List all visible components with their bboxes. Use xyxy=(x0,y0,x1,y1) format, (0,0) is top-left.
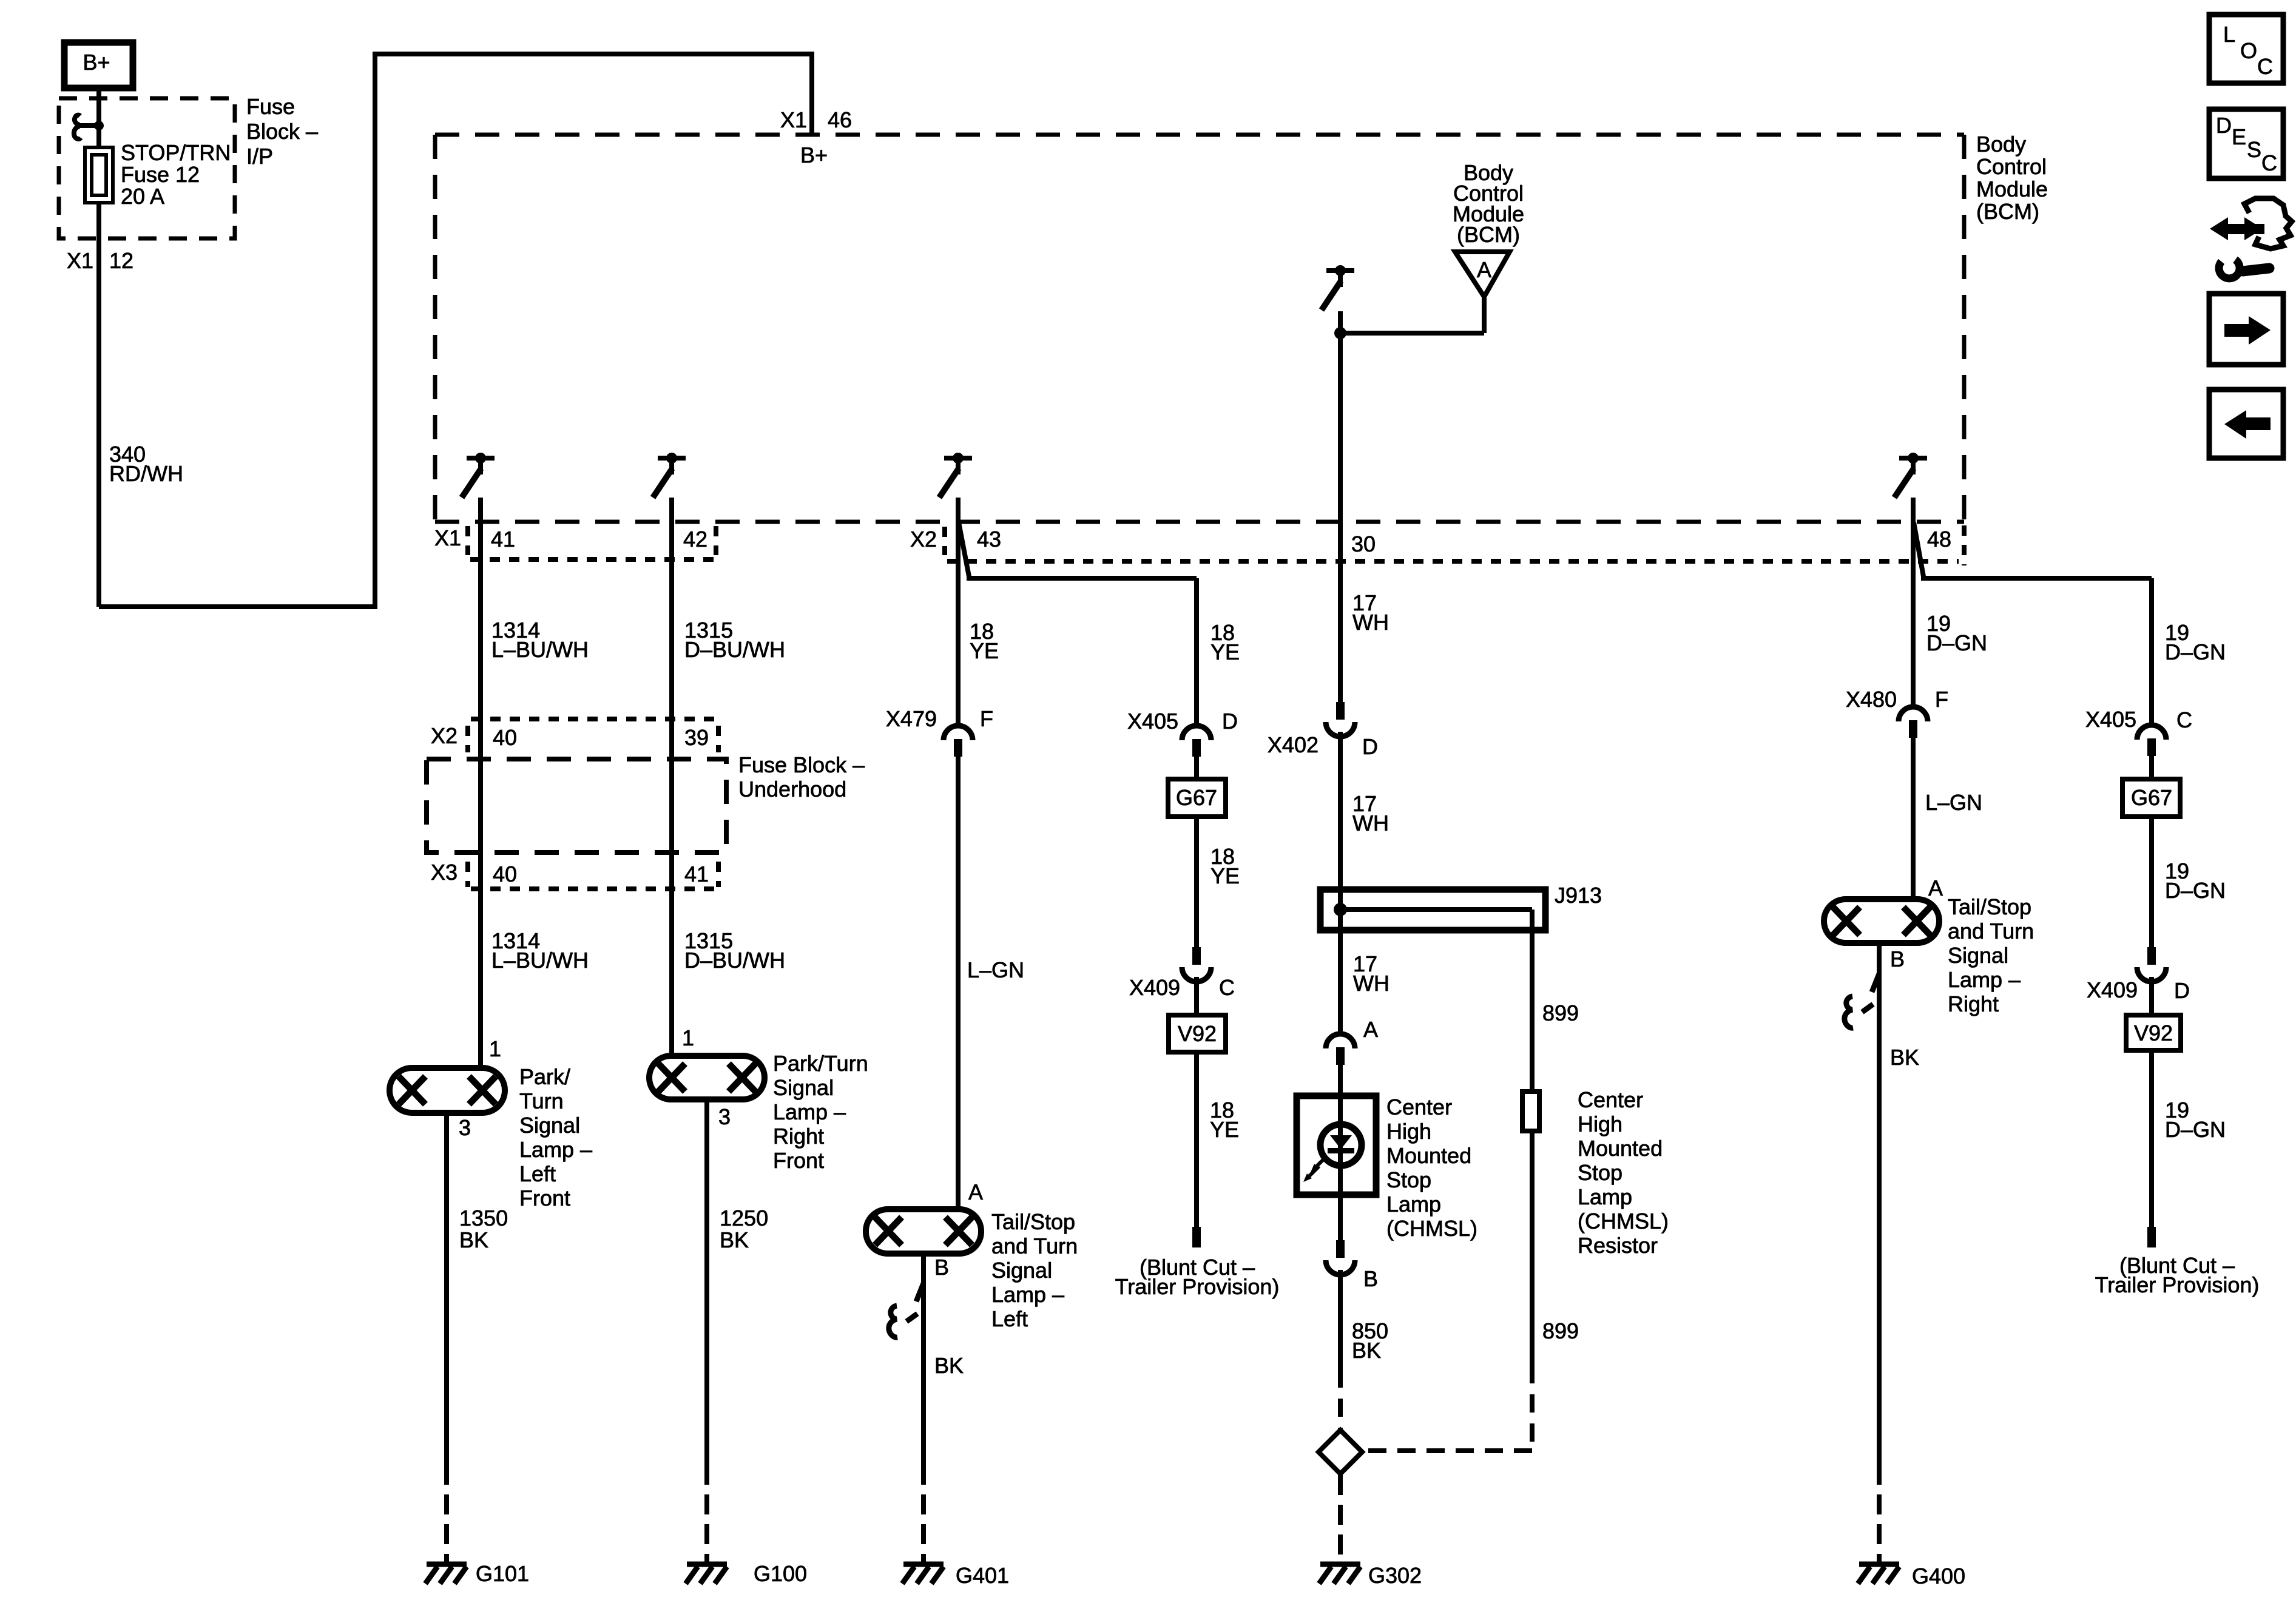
svg-text:Lamp –: Lamp – xyxy=(773,1099,846,1124)
svg-text:WH: WH xyxy=(1352,610,1389,635)
svg-text:G401: G401 xyxy=(956,1563,1009,1588)
svg-text:Center: Center xyxy=(1578,1087,1643,1112)
connector X409 C xyxy=(1129,947,1235,1000)
wire X405 to G67 xyxy=(1194,757,1199,780)
fuse block underhood dashed box xyxy=(427,759,726,852)
fuse block I/P dashed box xyxy=(59,98,235,238)
svg-text:L–BU/WH: L–BU/WH xyxy=(491,637,589,662)
svg-text:(CHMSL): (CHMSL) xyxy=(1386,1216,1477,1241)
svg-text:D–BU/WH: D–BU/WH xyxy=(684,637,785,662)
wire label 18 YE above blunt cut xyxy=(1210,1098,1239,1142)
svg-text:B+: B+ xyxy=(83,50,110,75)
blunt cut left label xyxy=(1115,1255,1280,1299)
connector X479 F xyxy=(886,706,993,757)
svg-text:L: L xyxy=(2223,22,2235,47)
tail/stop and turn signal lamp right xyxy=(1824,899,1939,943)
svg-text:Tail/Stop: Tail/Stop xyxy=(991,1209,1075,1234)
svg-text:YE: YE xyxy=(1210,863,1240,888)
svg-text:3: 3 xyxy=(459,1115,471,1140)
connector X402 D xyxy=(1268,702,1378,759)
svg-text:WH: WH xyxy=(1352,811,1389,836)
wire label 850 BK xyxy=(1352,1318,1388,1363)
CHMSL resistor xyxy=(1522,1092,1539,1131)
LOC icon box xyxy=(2209,15,2283,83)
previous page arrow icon xyxy=(2209,390,2283,458)
ground G401 xyxy=(902,1563,1009,1588)
svg-text:A: A xyxy=(1477,257,1491,282)
svg-text:12: 12 xyxy=(109,248,133,273)
svg-text:43: 43 xyxy=(977,527,1001,552)
wire label 1314 L-BU/WH lower xyxy=(491,928,589,973)
svg-text:Signal: Signal xyxy=(991,1258,1052,1283)
BCM label above triangle xyxy=(1453,160,1524,247)
svg-text:1: 1 xyxy=(682,1025,694,1050)
wire 1315 upper xyxy=(669,498,674,1056)
svg-text:X1: X1 xyxy=(780,107,807,132)
svg-text:Fuse: Fuse xyxy=(246,94,295,119)
svg-text:Right: Right xyxy=(1948,991,1999,1016)
svg-text:Signal: Signal xyxy=(773,1075,834,1100)
svg-text:X409: X409 xyxy=(2087,977,2138,1002)
svg-text:Tail/Stop: Tail/Stop xyxy=(1948,894,2031,919)
next page arrow icon xyxy=(2209,294,2283,365)
wire 1250 BK xyxy=(704,1099,709,1562)
svg-text:899: 899 xyxy=(1542,1318,1579,1343)
svg-text:C: C xyxy=(2257,54,2273,79)
svg-text:C: C xyxy=(1219,975,1235,1000)
svg-text:YE: YE xyxy=(1210,640,1240,664)
svg-text:Mounted: Mounted xyxy=(1386,1143,1471,1168)
wire CHMSL to connector B xyxy=(1338,1195,1343,1240)
wire label 1315 D-BU/WH upper xyxy=(684,618,785,662)
in-line connector symbol tail right xyxy=(1845,974,1879,1028)
svg-text:F: F xyxy=(980,706,993,731)
svg-text:Park/Turn: Park/Turn xyxy=(773,1051,868,1076)
svg-text:Trailer Provision): Trailer Provision) xyxy=(2095,1272,2260,1297)
blunt cut terminal left xyxy=(1192,1227,1201,1247)
wire label 18 YE column 3 xyxy=(970,619,999,663)
wire BK tail left xyxy=(921,1254,926,1562)
wire branch pin 48 to X405 C xyxy=(1914,522,2152,725)
svg-text:BK: BK xyxy=(1890,1045,1919,1070)
wire label 17 WH upper xyxy=(1352,590,1389,635)
wire 899 lower xyxy=(1363,1131,1532,1451)
svg-text:B+: B+ xyxy=(800,143,828,167)
wire label 17 WH lower xyxy=(1353,951,1389,996)
svg-text:Fuse 12: Fuse 12 xyxy=(121,162,200,187)
svg-text:D–GN: D–GN xyxy=(1926,630,1987,655)
svg-text:and Turn: and Turn xyxy=(1948,919,2034,944)
svg-text:30: 30 xyxy=(1351,532,1376,556)
svg-text:L–BU/WH: L–BU/WH xyxy=(491,948,589,973)
BCM driver switch pin 43 xyxy=(939,453,972,498)
wire 899 from J913 xyxy=(1530,910,1535,1092)
svg-text:F: F xyxy=(1935,687,1948,712)
ground reference V92 box right xyxy=(2126,1015,2181,1050)
wire label 18 YE branch xyxy=(1210,620,1240,664)
svg-text:3: 3 xyxy=(718,1104,731,1129)
tail/stop left label xyxy=(991,1209,1078,1331)
wire L-GN to tail lamp left xyxy=(956,757,961,1210)
BCM driver switch pin 48 xyxy=(1894,453,1927,498)
pin X1 12 labels xyxy=(67,248,133,273)
svg-text:YE: YE xyxy=(1210,1117,1239,1142)
svg-text:Fuse Block –: Fuse Block – xyxy=(738,752,865,777)
wire diamond to G302 xyxy=(1338,1475,1343,1562)
svg-text:41: 41 xyxy=(491,527,515,552)
svg-text:A: A xyxy=(968,1180,983,1204)
wire 19 D-GN pin 48 xyxy=(1911,498,1916,707)
svg-text:G101: G101 xyxy=(476,1561,529,1586)
wire branch pin 43 to X405 xyxy=(959,522,1197,726)
BCM driver switch pin 42 xyxy=(653,453,686,498)
fuse block underhood connector X3 row xyxy=(431,860,718,889)
ground reference V92 box left xyxy=(1169,1015,1226,1052)
BCM internal node triangle A xyxy=(1455,252,1510,297)
wire 17 WH pin 30 xyxy=(1338,311,1343,702)
wire BK tail right xyxy=(1877,943,1882,1562)
svg-text:D: D xyxy=(1362,734,1378,759)
wire label 19 D-GN lower right xyxy=(2165,1098,2226,1142)
svg-text:1: 1 xyxy=(489,1036,501,1061)
svg-text:C: C xyxy=(2261,150,2277,175)
svg-text:Left: Left xyxy=(519,1161,556,1186)
svg-text:G67: G67 xyxy=(1176,785,1217,810)
wire G67 to X409 right xyxy=(2149,817,2154,947)
svg-text:D–GN: D–GN xyxy=(2165,878,2226,903)
svg-text:Mounted: Mounted xyxy=(1578,1136,1663,1161)
blunt cut right label xyxy=(2095,1253,2260,1297)
svg-text:RD/WH: RD/WH xyxy=(109,461,183,486)
svg-text:(CHMSL): (CHMSL) xyxy=(1578,1209,1669,1234)
svg-text:X1: X1 xyxy=(434,525,461,550)
svg-text:Block –: Block – xyxy=(246,119,318,144)
harness repair icon xyxy=(2210,198,2292,279)
wire 18 YE pin 43 xyxy=(956,498,961,726)
svg-text:X402: X402 xyxy=(1268,732,1319,757)
svg-text:Resistor: Resistor xyxy=(1578,1233,1658,1258)
svg-text:E: E xyxy=(2232,124,2246,149)
fuse block I/P label xyxy=(246,94,318,169)
svg-text:Trailer Provision): Trailer Provision) xyxy=(1115,1274,1280,1299)
connector X480 F xyxy=(1846,687,1948,738)
splice diamond xyxy=(1319,1430,1362,1474)
wire label 19 D-GN branch xyxy=(2165,620,2226,664)
park/turn left front label xyxy=(519,1064,592,1210)
svg-text:C: C xyxy=(2176,707,2192,732)
svg-text:X2: X2 xyxy=(910,527,937,552)
wire 850 BK xyxy=(1338,1270,1343,1429)
svg-text:Lamp: Lamp xyxy=(1578,1184,1632,1209)
svg-text:Lamp –: Lamp – xyxy=(1948,967,2021,992)
fuse STOP/TRN Fuse 12 20 A xyxy=(85,147,113,203)
svg-text:Stop: Stop xyxy=(1386,1167,1431,1192)
svg-text:BK: BK xyxy=(934,1353,964,1378)
svg-text:V92: V92 xyxy=(2134,1021,2173,1045)
CHMSL lamp box with LED xyxy=(1297,1096,1376,1195)
svg-text:X1: X1 xyxy=(67,248,93,273)
wire label 18 YE below G67 xyxy=(1210,844,1240,888)
svg-text:Body: Body xyxy=(1976,132,2026,157)
svg-text:Front: Front xyxy=(773,1148,824,1173)
ground reference G67 box right xyxy=(2122,779,2180,817)
svg-text:D–BU/WH: D–BU/WH xyxy=(684,948,785,973)
bus hook connector inside fuse block xyxy=(74,115,104,139)
svg-text:1350: 1350 xyxy=(459,1206,508,1230)
wire L-GN right xyxy=(1911,738,1916,900)
svg-text:BK: BK xyxy=(720,1227,749,1252)
BCM driver switch pin 41 xyxy=(462,453,495,498)
splice pack J913 xyxy=(1320,883,1602,930)
connector B CHMSL xyxy=(1326,1240,1378,1291)
wire label 19 D-GN mid right xyxy=(2165,859,2226,903)
svg-text:X2: X2 xyxy=(431,723,458,748)
svg-text:Signal: Signal xyxy=(1948,943,2008,968)
svg-text:L–GN: L–GN xyxy=(1925,790,1982,815)
BCM label right side xyxy=(1976,132,2048,224)
connector X409 D xyxy=(2087,947,2190,1003)
wire V92 to blunt cut left xyxy=(1194,1052,1199,1227)
svg-text:B: B xyxy=(1890,947,1905,971)
svg-text:(BCM): (BCM) xyxy=(1976,199,2039,224)
tail/stop right label xyxy=(1948,894,2034,1016)
wire A to CHMSL lamp xyxy=(1338,1065,1343,1098)
battery feed B+ box xyxy=(64,42,133,88)
svg-text:X405: X405 xyxy=(1127,709,1178,734)
wire V92 to blunt cut right xyxy=(2149,1050,2154,1227)
park/turn right front label xyxy=(773,1051,868,1173)
svg-text:Stop: Stop xyxy=(1578,1160,1622,1185)
wire label 1350 BK xyxy=(459,1206,508,1252)
wire label 17 WH mid xyxy=(1352,791,1389,836)
connector X1 pin row xyxy=(434,525,720,559)
svg-text:Right: Right xyxy=(773,1124,824,1149)
svg-text:40: 40 xyxy=(493,725,517,750)
ground G100 xyxy=(686,1561,807,1586)
svg-text:Park/: Park/ xyxy=(519,1064,570,1089)
ground reference G67 box left xyxy=(1168,779,1226,817)
svg-text:A: A xyxy=(1928,876,1943,900)
wire X402 to J913 xyxy=(1338,732,1343,890)
svg-text:WH: WH xyxy=(1353,971,1389,996)
CHMSL label xyxy=(1386,1095,1477,1241)
wire 1314 upper xyxy=(478,498,483,1068)
wire G67 to X409 xyxy=(1194,817,1199,947)
fuse block underhood label xyxy=(738,752,865,802)
wire feed loop to BCM pin X1 46 xyxy=(99,52,812,609)
svg-text:Lamp: Lamp xyxy=(1386,1192,1441,1217)
svg-text:D: D xyxy=(2174,978,2190,1003)
park/turn signal lamp right front xyxy=(649,1056,765,1099)
svg-text:Turn: Turn xyxy=(519,1089,564,1113)
pin X1 46 labels xyxy=(780,107,852,167)
fuse block underhood connector X2 row xyxy=(431,719,718,752)
svg-text:STOP/TRN: STOP/TRN xyxy=(121,140,231,165)
connector X405 D xyxy=(1127,709,1238,757)
svg-text:A: A xyxy=(1363,1017,1378,1042)
svg-text:V92: V92 xyxy=(1178,1021,1217,1046)
ground G101 xyxy=(425,1561,529,1586)
svg-text:Signal: Signal xyxy=(519,1113,580,1138)
svg-text:20 A: 20 A xyxy=(121,184,164,209)
svg-text:D: D xyxy=(1222,709,1238,734)
svg-text:Center: Center xyxy=(1386,1095,1452,1119)
wire 340 RD/WH down from fuse xyxy=(96,203,101,607)
svg-text:D: D xyxy=(2216,113,2232,138)
wire label 1314 L-BU/WH upper xyxy=(491,618,589,662)
svg-text:Control: Control xyxy=(1976,154,2047,179)
wire label 1315 D-BU/WH lower xyxy=(684,928,785,973)
svg-text:X479: X479 xyxy=(886,706,937,731)
svg-text:G67: G67 xyxy=(2131,785,2172,810)
wire X405 C to G67 xyxy=(2149,756,2154,780)
svg-text:Underhood: Underhood xyxy=(738,777,846,802)
svg-text:O: O xyxy=(2240,38,2257,63)
svg-text:42: 42 xyxy=(683,527,707,552)
svg-text:48: 48 xyxy=(1927,527,1951,552)
svg-text:and Turn: and Turn xyxy=(991,1234,1078,1258)
svg-text:BK: BK xyxy=(1352,1338,1381,1363)
svg-text:X480: X480 xyxy=(1846,687,1897,712)
svg-text:B: B xyxy=(934,1255,949,1280)
svg-text:D–GN: D–GN xyxy=(2165,640,2226,664)
svg-text:YE: YE xyxy=(970,638,999,663)
ground G302 xyxy=(1319,1563,1422,1588)
park/turn signal lamp left front xyxy=(390,1068,505,1113)
wire label 1250 BK xyxy=(720,1206,768,1252)
fuse value label xyxy=(121,140,231,209)
Body Control Module dashed box xyxy=(435,135,1964,565)
svg-text:1250: 1250 xyxy=(720,1206,768,1230)
ground G400 xyxy=(1858,1564,1965,1588)
wire 1350 BK xyxy=(444,1113,449,1562)
connector X2 pin row xyxy=(910,527,1959,561)
BCM driver switch pin 30 xyxy=(1322,265,1354,310)
in-line connector symbol tail left xyxy=(889,1283,923,1337)
connector A CHMSL xyxy=(1326,1017,1378,1065)
wire triangle A to pin 30 switch xyxy=(1334,297,1484,339)
svg-text:X3: X3 xyxy=(431,860,458,885)
svg-text:Front: Front xyxy=(519,1186,570,1210)
DESC icon box xyxy=(2209,109,2283,178)
tail/stop and turn signal lamp left xyxy=(866,1209,981,1254)
blunt cut terminal right xyxy=(2147,1227,2156,1247)
wire B+ to fuse xyxy=(96,88,101,147)
svg-text:X409: X409 xyxy=(1129,975,1180,1000)
svg-text:L–GN: L–GN xyxy=(967,957,1024,982)
svg-text:X405: X405 xyxy=(2085,707,2136,732)
svg-text:40: 40 xyxy=(493,862,517,886)
svg-text:B: B xyxy=(1363,1266,1378,1291)
wire J913 through xyxy=(1338,890,1343,1033)
svg-text:39: 39 xyxy=(684,725,709,750)
wire label 340 RD/WH xyxy=(109,442,183,486)
svg-text:G400: G400 xyxy=(1912,1564,1965,1588)
CHMSL resistor label xyxy=(1578,1087,1669,1258)
svg-text:BK: BK xyxy=(459,1227,488,1252)
svg-text:S: S xyxy=(2247,137,2261,162)
svg-text:899: 899 xyxy=(1542,1001,1579,1025)
svg-text:Lamp –: Lamp – xyxy=(519,1137,592,1162)
svg-text:Left: Left xyxy=(991,1306,1028,1331)
svg-text:High: High xyxy=(1386,1119,1431,1144)
svg-text:G100: G100 xyxy=(754,1561,807,1586)
svg-text:Module: Module xyxy=(1976,177,2048,201)
wire X409 to V92 xyxy=(1194,977,1199,1016)
svg-text:D–GN: D–GN xyxy=(2165,1117,2226,1142)
svg-text:Lamp –: Lamp – xyxy=(991,1282,1064,1307)
wire label 19 D-GN left xyxy=(1926,611,1987,655)
svg-text:I/P: I/P xyxy=(246,144,273,169)
wire X409 to V92 right xyxy=(2149,977,2154,1016)
svg-text:J913: J913 xyxy=(1555,883,1602,908)
svg-text:(BCM): (BCM) xyxy=(1457,222,1520,247)
svg-text:G302: G302 xyxy=(1368,1563,1422,1588)
svg-text:46: 46 xyxy=(828,107,852,132)
svg-text:41: 41 xyxy=(684,862,709,886)
connector X405 C xyxy=(2085,707,2192,756)
svg-text:High: High xyxy=(1578,1112,1622,1136)
